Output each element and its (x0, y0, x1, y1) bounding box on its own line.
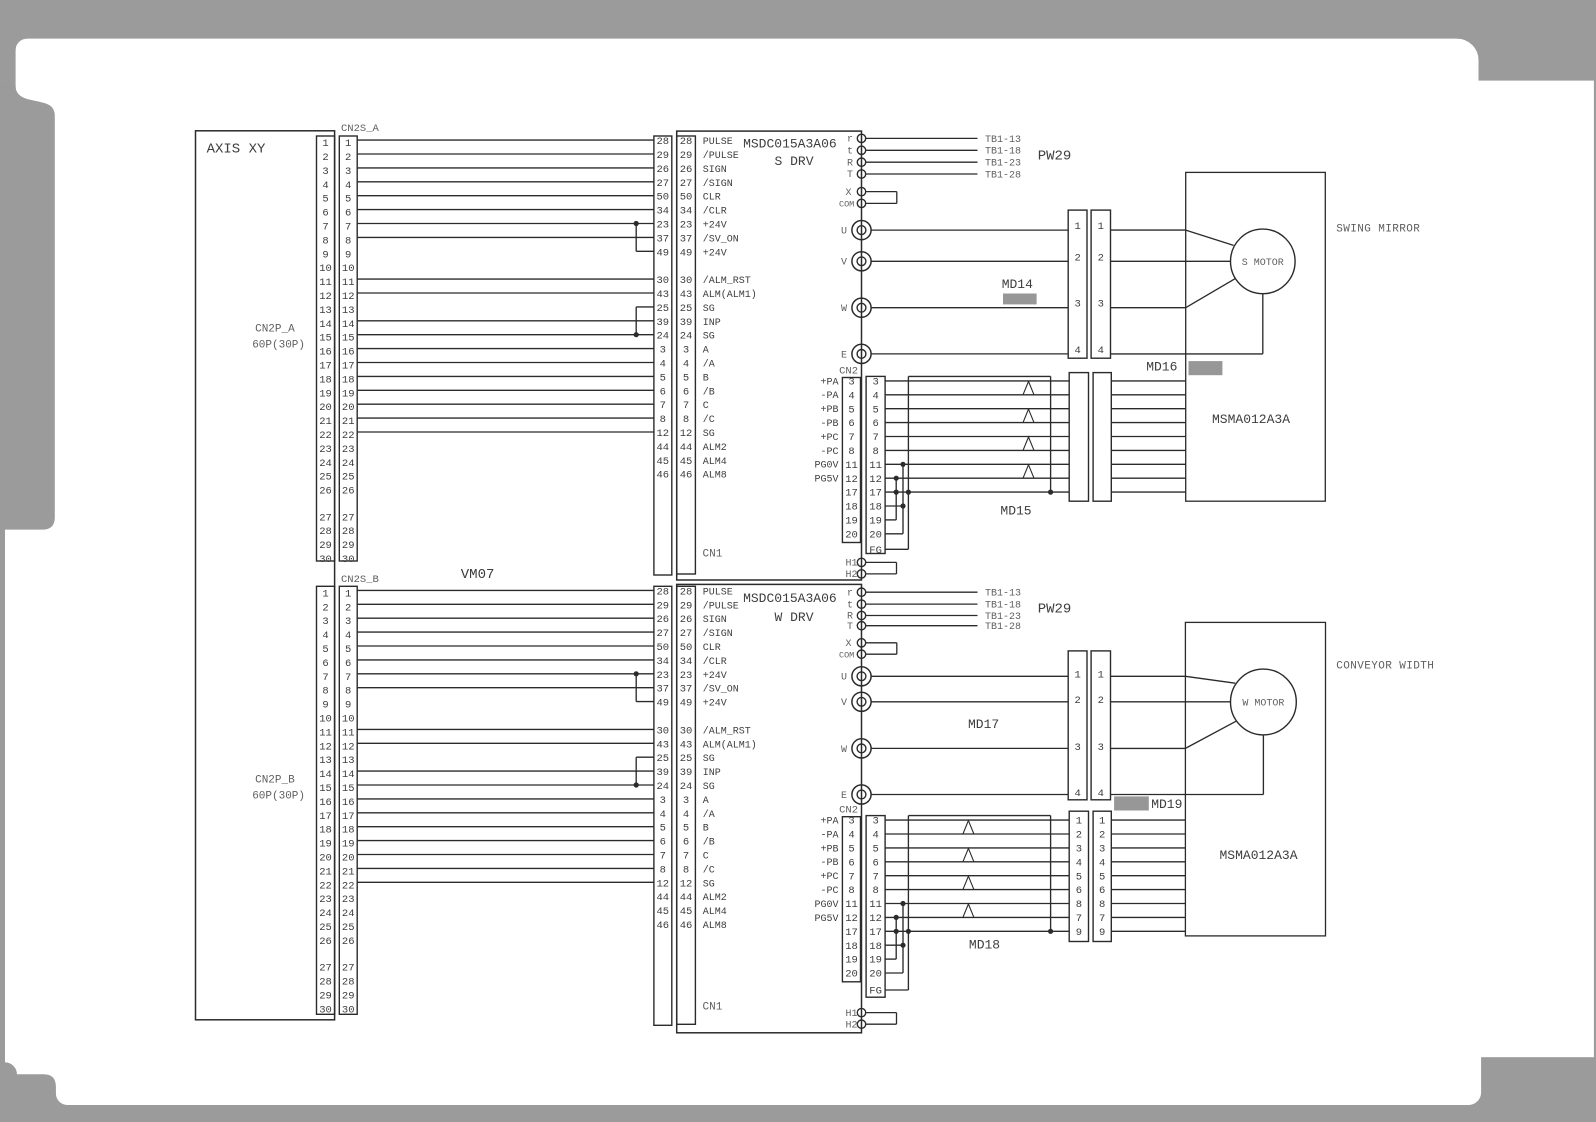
svg-text:20: 20 (845, 969, 858, 981)
svg-text:18: 18 (319, 825, 332, 837)
svg-text:7: 7 (872, 871, 878, 883)
svg-text:U: U (841, 673, 847, 684)
svg-text:39: 39 (656, 767, 669, 779)
svg-text:28: 28 (680, 586, 693, 598)
svg-text:/B: /B (703, 837, 715, 849)
svg-text:4: 4 (1098, 345, 1104, 357)
svg-text:FG: FG (869, 545, 882, 557)
svg-text:SIGN: SIGN (703, 165, 727, 176)
wire bundle CN2S_B to driver CN1 (357, 590, 654, 882)
svg-text:r: r (847, 135, 853, 146)
svg-text:8: 8 (848, 446, 854, 458)
svg-text:-PA: -PA (820, 830, 838, 841)
svg-text:39: 39 (680, 317, 693, 329)
svg-text:-PB: -PB (820, 858, 838, 869)
svg-text:H1: H1 (845, 1009, 857, 1020)
svg-text:26: 26 (656, 614, 669, 626)
svg-text:4: 4 (683, 359, 689, 371)
svg-text:29: 29 (342, 990, 355, 1002)
svg-text:r: r (847, 588, 853, 599)
motor S MOTOR symbol (1231, 229, 1296, 294)
svg-text:23: 23 (319, 444, 332, 456)
svg-text:MSDC015A3A06: MSDC015A3A06 (743, 137, 837, 152)
svg-text:8: 8 (683, 414, 689, 426)
svg-text:PW29: PW29 (1038, 149, 1072, 165)
svg-text:/A: /A (703, 809, 715, 821)
svg-text:CLR: CLR (703, 643, 721, 654)
svg-text:/CLR: /CLR (703, 656, 727, 668)
svg-text:24: 24 (656, 781, 669, 793)
svg-text:6: 6 (848, 857, 854, 869)
svg-text:19: 19 (342, 388, 355, 400)
svg-text:4: 4 (322, 630, 328, 642)
svg-text:1: 1 (1076, 816, 1082, 828)
svg-text:21: 21 (319, 866, 332, 878)
svg-text:27: 27 (680, 178, 693, 190)
svg-text:4: 4 (345, 180, 351, 192)
svg-text:3: 3 (322, 616, 328, 628)
main controller box AXIS XY (196, 131, 335, 1020)
connector CN2S_A pin column (339, 136, 357, 561)
svg-text:37: 37 (656, 684, 669, 696)
svg-text:7: 7 (683, 851, 689, 863)
svg-text:7: 7 (660, 400, 666, 412)
svg-text:+PA: +PA (820, 377, 838, 388)
encoder wires to motor (1111, 381, 1185, 492)
svg-text:26: 26 (342, 936, 355, 948)
svg-text:X: X (845, 639, 851, 650)
motor power connector MD17 plug column A (1068, 651, 1087, 800)
svg-text:17: 17 (342, 811, 355, 823)
svg-text:2: 2 (1074, 695, 1080, 707)
svg-text:16: 16 (319, 797, 332, 809)
encoder wire bundle to MD15 connector (885, 376, 1069, 549)
svg-text:26: 26 (680, 614, 693, 626)
svg-text:ALM4: ALM4 (703, 457, 727, 468)
svg-text:7: 7 (848, 871, 854, 883)
svg-text:1: 1 (345, 588, 351, 600)
svg-text:30: 30 (656, 275, 669, 287)
connector CN2P_B pin column (317, 586, 335, 1014)
svg-text:30: 30 (680, 725, 693, 737)
svg-text:7: 7 (872, 432, 878, 444)
svg-text:MD18: MD18 (969, 938, 1000, 953)
svg-text:6: 6 (345, 208, 351, 220)
svg-text:3: 3 (683, 345, 689, 357)
svg-text:20: 20 (319, 853, 332, 865)
svg-text:27: 27 (342, 512, 355, 524)
svg-text:18: 18 (319, 374, 332, 386)
svg-text:4: 4 (1098, 788, 1104, 800)
svg-text:PULSE: PULSE (703, 137, 733, 148)
svg-text:8: 8 (1076, 899, 1082, 911)
svg-text:23: 23 (680, 220, 693, 232)
svg-text:50: 50 (656, 192, 669, 204)
svg-text:12: 12 (845, 474, 858, 486)
CN2 pin numbers and FG (845, 816, 882, 998)
wires U V W E to motor connector (871, 229, 1068, 231)
connector CN1 inner strip (677, 136, 696, 574)
svg-text:1: 1 (1098, 221, 1104, 233)
svg-text:23: 23 (656, 220, 669, 232)
svg-text:B: B (703, 373, 709, 384)
svg-text:30: 30 (656, 725, 669, 737)
encoder strip CN2 (driver side) (842, 817, 860, 982)
svg-text:25: 25 (319, 472, 332, 484)
encoder wire bundle to MD18 connector (885, 816, 1069, 990)
svg-text:CN2S_B: CN2S_B (341, 574, 379, 586)
svg-text:+24V: +24V (703, 221, 727, 232)
encoder connector pin numbers (1076, 816, 1106, 939)
svg-text:30: 30 (319, 554, 332, 566)
svg-text:SG: SG (703, 754, 715, 765)
svg-text:24: 24 (319, 458, 332, 470)
svg-text:2: 2 (1076, 830, 1082, 842)
encoder wires to motor (1111, 820, 1185, 931)
svg-text:44: 44 (656, 442, 669, 454)
svg-text:1: 1 (1074, 221, 1080, 233)
svg-text:45: 45 (680, 906, 693, 918)
svg-text:7: 7 (345, 672, 351, 684)
svg-text:15: 15 (319, 783, 332, 795)
svg-text:5: 5 (322, 644, 328, 656)
svg-text:5: 5 (660, 372, 666, 384)
svg-text:5: 5 (1076, 871, 1082, 883)
svg-text:C: C (703, 401, 709, 412)
svg-text:20: 20 (845, 529, 858, 541)
svg-text:B: B (703, 824, 709, 835)
svg-text:20: 20 (342, 402, 355, 414)
svg-text:+PA: +PA (820, 817, 838, 828)
svg-text:14: 14 (319, 769, 332, 781)
svg-text:3: 3 (1098, 742, 1104, 754)
svg-text:5: 5 (660, 823, 666, 835)
svg-text:SG: SG (703, 332, 715, 343)
CN1 pin numbers and signal names (656, 136, 756, 482)
svg-text:19: 19 (342, 839, 355, 851)
svg-text:SWING MIRROR: SWING MIRROR (1336, 224, 1420, 236)
wires U V W E to motor connector (871, 675, 1068, 677)
svg-text:19: 19 (869, 955, 882, 967)
svg-text:3: 3 (322, 166, 328, 178)
svg-text:34: 34 (656, 656, 669, 668)
svg-text:TB1-18: TB1-18 (985, 601, 1021, 612)
svg-text:TB1-18: TB1-18 (985, 147, 1021, 158)
svg-text:3: 3 (1076, 844, 1082, 856)
svg-text:/A: /A (703, 359, 715, 371)
svg-text:AXIS XY: AXIS XY (207, 142, 266, 158)
svg-text:2: 2 (345, 152, 351, 164)
motor unit MSMA012A3A outline (1185, 622, 1325, 936)
encoder plug strip (cable side) (866, 816, 885, 998)
svg-text:15: 15 (342, 333, 355, 345)
svg-text:4: 4 (872, 830, 878, 842)
svg-text:27: 27 (319, 963, 332, 975)
svg-text:MSDC015A3A06: MSDC015A3A06 (743, 591, 837, 606)
svg-text:-PC: -PC (820, 886, 838, 897)
svg-text:24: 24 (656, 331, 669, 343)
motor power connector plug column B (1091, 210, 1110, 358)
svg-text:1: 1 (322, 588, 328, 600)
svg-text:39: 39 (680, 767, 693, 779)
svg-text:-PB: -PB (820, 419, 838, 430)
svg-text:3: 3 (1098, 299, 1104, 311)
svg-text:X: X (845, 188, 851, 199)
svg-text:30: 30 (680, 275, 693, 287)
svg-text:5: 5 (872, 404, 878, 416)
svg-text:25: 25 (656, 303, 669, 315)
svg-text:2: 2 (322, 152, 328, 164)
svg-text:SIGN: SIGN (703, 615, 727, 626)
svg-text:VM07: VM07 (461, 567, 495, 583)
svg-text:W: W (841, 304, 847, 315)
svg-text:U: U (841, 227, 847, 238)
svg-text:1: 1 (1099, 816, 1105, 828)
svg-text:ALM2: ALM2 (703, 893, 727, 904)
pin numbers CN2P_A/CN2S_A (319, 138, 354, 566)
svg-text:27: 27 (656, 628, 669, 640)
svg-text:24: 24 (680, 781, 693, 793)
svg-text:8: 8 (322, 686, 328, 698)
svg-text:11: 11 (845, 460, 858, 472)
svg-text:27: 27 (680, 628, 693, 640)
svg-text:11: 11 (869, 899, 882, 911)
svg-text:7: 7 (322, 672, 328, 684)
servo driver S DRV block (677, 131, 862, 580)
svg-text:MD16: MD16 (1146, 359, 1177, 374)
svg-text:10: 10 (319, 714, 332, 726)
svg-text:19: 19 (319, 839, 332, 851)
svg-text:23: 23 (319, 894, 332, 906)
svg-text:30: 30 (342, 554, 355, 566)
svg-text:6: 6 (322, 658, 328, 670)
svg-text:11: 11 (845, 899, 858, 911)
svg-text:CN2S_A: CN2S_A (341, 123, 380, 135)
connector CN2S_B pin column (339, 586, 357, 1014)
junction on +24V wire (634, 671, 639, 676)
svg-text:60P(30P): 60P(30P) (252, 340, 305, 352)
svg-text:39: 39 (656, 317, 669, 329)
svg-text:H2: H2 (845, 570, 857, 581)
svg-text:4: 4 (1074, 345, 1080, 357)
svg-text:25: 25 (342, 472, 355, 484)
svg-text:FG: FG (869, 986, 882, 998)
svg-text:12: 12 (656, 878, 669, 890)
svg-text:50: 50 (680, 642, 693, 654)
svg-text:10: 10 (319, 263, 332, 275)
svg-text:/ALM_RST: /ALM_RST (703, 275, 751, 287)
svg-text:/C: /C (703, 864, 715, 876)
svg-text:12: 12 (656, 428, 669, 440)
svg-text:27: 27 (656, 178, 669, 190)
svg-text:/SV_ON: /SV_ON (703, 233, 739, 245)
svg-text:PG5V: PG5V (814, 914, 838, 925)
svg-text:5: 5 (848, 404, 854, 416)
svg-text:MD17: MD17 (968, 717, 999, 732)
svg-text:25: 25 (342, 922, 355, 934)
svg-text:12: 12 (342, 291, 355, 303)
svg-text:28: 28 (656, 136, 669, 148)
svg-text:6: 6 (872, 857, 878, 869)
svg-text:45: 45 (656, 456, 669, 468)
svg-text:49: 49 (656, 698, 669, 710)
svg-text:3: 3 (660, 795, 666, 807)
svg-text:2: 2 (1098, 695, 1104, 707)
svg-text:12: 12 (319, 291, 332, 303)
svg-text:ALM8: ALM8 (703, 921, 727, 932)
svg-text:PG0V: PG0V (814, 461, 838, 472)
svg-text:MD14: MD14 (1002, 277, 1033, 292)
svg-text:24: 24 (342, 458, 355, 470)
svg-text:H2: H2 (845, 1020, 857, 1031)
svg-text:1: 1 (345, 138, 351, 150)
encoder connector plug column B (1093, 373, 1111, 502)
svg-text:T: T (847, 622, 853, 633)
svg-text:CN2P_B: CN2P_B (255, 775, 295, 787)
svg-text:/B: /B (703, 386, 715, 398)
svg-text:13: 13 (319, 755, 332, 767)
svg-text:49: 49 (656, 247, 669, 259)
svg-text:37: 37 (680, 233, 693, 245)
svg-text:4: 4 (1074, 788, 1080, 800)
svg-text:5: 5 (1099, 871, 1105, 883)
svg-text:19: 19 (845, 516, 858, 528)
svg-text:3: 3 (872, 816, 878, 828)
svg-text:17: 17 (869, 927, 882, 939)
svg-text:A: A (703, 796, 709, 807)
svg-text:34: 34 (680, 656, 693, 668)
svg-text:1: 1 (1074, 670, 1080, 682)
encoder connector plug column B (1093, 811, 1111, 941)
svg-text:8: 8 (345, 686, 351, 698)
connector CN2P_A pin column (317, 136, 335, 561)
svg-text:15: 15 (342, 783, 355, 795)
connector VM07 cable plug (outer strip) (654, 586, 672, 1025)
encoder plug strip (cable side) (866, 376, 885, 553)
svg-text:7: 7 (660, 851, 666, 863)
svg-text:V: V (841, 258, 847, 269)
svg-text:10: 10 (342, 714, 355, 726)
svg-text:20: 20 (869, 529, 882, 541)
svg-text:4: 4 (848, 830, 854, 842)
servo driver W DRV block (677, 584, 862, 1032)
svg-text:COM: COM (839, 650, 854, 660)
svg-text:28: 28 (319, 526, 332, 538)
svg-text:/CLR: /CLR (703, 206, 727, 218)
svg-text:23: 23 (342, 894, 355, 906)
svg-text:ALM(ALM1): ALM(ALM1) (703, 289, 757, 301)
wire bundle CN2S_A to driver CN1 (357, 140, 654, 432)
svg-text:5: 5 (848, 844, 854, 856)
svg-text:7: 7 (1076, 913, 1082, 925)
svg-text:22: 22 (342, 880, 355, 892)
svg-text:24: 24 (342, 908, 355, 920)
svg-text:29: 29 (319, 990, 332, 1002)
svg-text:MSMA012A3A: MSMA012A3A (1212, 412, 1290, 427)
svg-text:/PULSE: /PULSE (703, 600, 739, 612)
svg-text:18: 18 (845, 502, 858, 514)
connector VM07 cable plug (outer strip) (654, 136, 672, 575)
junction on SG wire (634, 782, 639, 787)
svg-text:4: 4 (872, 390, 878, 402)
junction dots on encoder jumpers (894, 915, 899, 920)
svg-text:44: 44 (680, 892, 693, 904)
svg-text:46: 46 (680, 470, 693, 482)
svg-text:H1: H1 (845, 559, 857, 570)
svg-text:14: 14 (342, 319, 355, 331)
svg-text:9: 9 (322, 249, 328, 261)
svg-text:7: 7 (1099, 913, 1105, 925)
svg-text:23: 23 (342, 444, 355, 456)
svg-text:16: 16 (342, 347, 355, 359)
CN2 signal names (814, 377, 838, 485)
svg-text:ALM8: ALM8 (703, 471, 727, 482)
motor power connector MD14 plug column A (1068, 210, 1087, 358)
svg-text:8: 8 (848, 885, 854, 897)
svg-text:4: 4 (848, 390, 854, 402)
svg-text:2: 2 (1098, 252, 1104, 264)
svg-text:13: 13 (342, 305, 355, 317)
svg-text:26: 26 (680, 164, 693, 176)
svg-text:V: V (841, 698, 847, 709)
svg-text:27: 27 (342, 963, 355, 975)
svg-text:-PA: -PA (820, 391, 838, 402)
svg-text:PW29: PW29 (1038, 602, 1072, 618)
svg-text:3: 3 (660, 345, 666, 357)
svg-text:3: 3 (848, 377, 854, 389)
svg-text:6: 6 (683, 386, 689, 398)
svg-text:SG: SG (703, 782, 715, 793)
svg-text:6: 6 (345, 658, 351, 670)
svg-text:9: 9 (322, 700, 328, 712)
svg-text:t: t (847, 147, 853, 158)
svg-text:29: 29 (656, 600, 669, 612)
svg-text:12: 12 (342, 741, 355, 753)
svg-text:28: 28 (342, 977, 355, 989)
svg-text:17: 17 (319, 361, 332, 373)
svg-text:MD19: MD19 (1151, 797, 1182, 812)
svg-text:16: 16 (342, 797, 355, 809)
svg-text:SG: SG (703, 879, 715, 890)
svg-text:5: 5 (345, 194, 351, 206)
svg-text:W: W (841, 745, 847, 756)
svg-text:13: 13 (319, 305, 332, 317)
svg-text:17: 17 (319, 811, 332, 823)
svg-text:1: 1 (322, 138, 328, 150)
svg-text:18: 18 (342, 825, 355, 837)
svg-text:MD15: MD15 (1000, 503, 1031, 518)
svg-text:60P(30P): 60P(30P) (252, 791, 305, 803)
svg-text:22: 22 (319, 880, 332, 892)
svg-text:CN2P_A: CN2P_A (255, 324, 295, 336)
wires power connector to motor (1111, 676, 1264, 794)
svg-text:21: 21 (319, 416, 332, 428)
svg-text:9: 9 (1099, 927, 1105, 939)
svg-text:16: 16 (319, 347, 332, 359)
svg-text:3: 3 (1074, 299, 1080, 311)
svg-text:INP: INP (703, 318, 721, 329)
svg-text:23: 23 (656, 670, 669, 682)
label MD19 with cable marker (1114, 796, 1149, 810)
svg-text:E: E (841, 350, 847, 361)
svg-text:11: 11 (319, 277, 332, 289)
svg-text:14: 14 (342, 769, 355, 781)
svg-text:3: 3 (345, 616, 351, 628)
CN1 pin numbers and signal names (656, 586, 756, 932)
svg-text:+24V: +24V (703, 248, 727, 259)
svg-text:25: 25 (680, 753, 693, 765)
svg-text:+PC: +PC (820, 433, 838, 444)
